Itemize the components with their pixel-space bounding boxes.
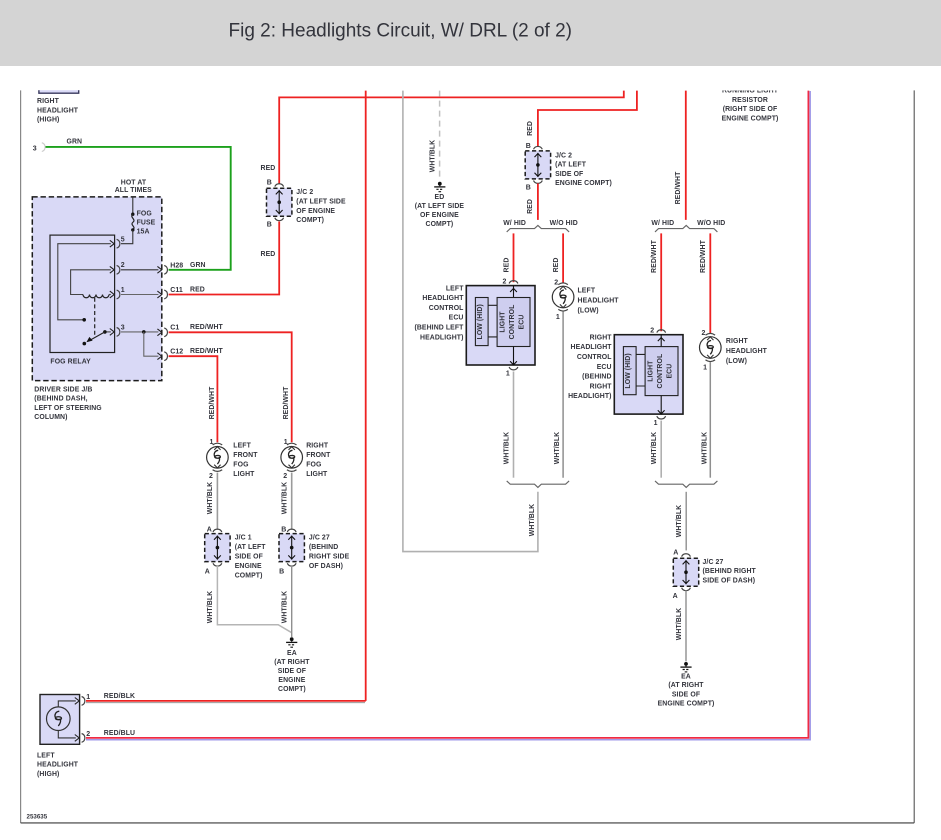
wire pin3 to C1 with junction: [121, 330, 158, 356]
svg-text:SIDE OF: SIDE OF: [235, 554, 263, 561]
svg-text:SIDE OF: SIDE OF: [278, 668, 306, 675]
svg-text:CONTROL: CONTROL: [509, 305, 516, 340]
svg-text:3: 3: [33, 145, 37, 152]
svg-text:RIGHT: RIGHT: [590, 383, 613, 390]
right headlight (high) cut-off box: [36, 84, 82, 124]
wire RED/BLU pin2 right and up (running light resistor feed): [86, 91, 810, 740]
label driver side J/B: [34, 387, 101, 422]
svg-text:FRONT: FRONT: [306, 452, 331, 459]
svg-text:RED/WHT: RED/WHT: [651, 239, 658, 273]
svg-text:RIGHT: RIGHT: [306, 443, 329, 450]
svg-text:RED/WHT: RED/WHT: [675, 171, 682, 205]
ground ED: [415, 182, 465, 228]
svg-text:LEFT: LEFT: [578, 287, 596, 294]
svg-text:W/O HID: W/O HID: [697, 220, 725, 227]
wire RED/WHT to right headlight low: [700, 233, 710, 333]
svg-text:RED/BLU: RED/BLU: [104, 730, 135, 737]
svg-text:B: B: [267, 222, 272, 229]
svg-text:WHT/BLK: WHT/BLK: [504, 432, 511, 464]
wire WHT/BLK J/C27 to ground EA: [282, 566, 292, 637]
svg-text:1: 1: [556, 314, 560, 321]
svg-text:FOG RELAY: FOG RELAY: [50, 359, 91, 366]
svg-text:2: 2: [283, 473, 287, 480]
svg-text:COMPT): COMPT): [296, 217, 324, 224]
relay pin 3: [107, 324, 125, 336]
svg-text:HEADLIGHT: HEADLIGHT: [37, 107, 79, 114]
svg-text:B: B: [267, 179, 272, 186]
ground EA (fog lights): [274, 637, 310, 693]
junction connector J/C 27 (engine): [673, 554, 756, 591]
svg-text:2: 2: [209, 473, 213, 480]
right headlight control ECU U2: [568, 328, 683, 427]
svg-text:ENGINE: ENGINE: [235, 563, 262, 570]
svg-text:FOG: FOG: [233, 461, 248, 468]
svg-text:EA: EA: [681, 673, 691, 680]
wire WHT/BLK right ECU pin1 down: [651, 421, 661, 478]
svg-text:FOG: FOG: [306, 461, 321, 468]
svg-text:WHT/BLK: WHT/BLK: [207, 482, 214, 514]
svg-text:COLUMN): COLUMN): [34, 414, 67, 421]
svg-text:COMPT): COMPT): [235, 572, 263, 579]
junction connector J/C 1: [205, 529, 267, 579]
svg-text:Fig 2: Headlights Circuit, W/: Fig 2: Headlights Circuit, W/ DRL (2 of …: [229, 21, 573, 42]
svg-text:A: A: [207, 526, 212, 533]
relay switch arm: [83, 330, 107, 345]
svg-text:HEADLIGHT: HEADLIGHT: [578, 297, 620, 304]
svg-text:W/ HID: W/ HID: [651, 220, 674, 227]
driver side J/B dashed box: [32, 197, 162, 381]
svg-text:OF DASH): OF DASH): [309, 563, 343, 570]
svg-text:COMPT): COMPT): [278, 686, 306, 693]
svg-text:RED: RED: [503, 258, 510, 273]
svg-text:WHT/BLK: WHT/BLK: [676, 608, 683, 640]
wire RED/WHT C1 to right fog light: [169, 332, 292, 442]
right front fog light: [281, 439, 331, 480]
svg-text:A: A: [205, 568, 210, 575]
svg-text:CONTROL: CONTROL: [429, 305, 464, 312]
svg-text:RED/BLK: RED/BLK: [104, 693, 135, 700]
svg-text:J/C 27: J/C 27: [309, 535, 330, 542]
svg-text:(HIGH): (HIGH): [37, 771, 59, 778]
svg-text:LOW (HID): LOW (HID): [477, 304, 484, 339]
wire WHT/BLK dashed to ground ED: [429, 91, 439, 181]
connector C1: [157, 324, 223, 336]
svg-text:LEFT: LEFT: [37, 752, 55, 759]
header band: [0, 0, 941, 66]
svg-text:(AT LEFT: (AT LEFT: [235, 544, 267, 551]
relay switch contact node: [82, 318, 86, 322]
svg-text:FUSE: FUSE: [137, 220, 156, 227]
wire WHT/BLK left ECU pin1 down: [504, 372, 514, 478]
svg-text:ECU: ECU: [597, 364, 612, 371]
svg-text:RED/WHT: RED/WHT: [209, 386, 216, 420]
svg-text:COMPT): COMPT): [426, 221, 454, 228]
svg-text:W/ HID: W/ HID: [503, 220, 526, 227]
pin 2 of left headlight high: [75, 731, 90, 742]
svg-text:2: 2: [650, 328, 654, 335]
svg-text:WHT/BLK: WHT/BLK: [701, 432, 708, 464]
svg-text:B: B: [281, 526, 286, 533]
wire RED/WHT main feed right: [675, 91, 686, 220]
svg-text:HEADLIGHT: HEADLIGHT: [37, 762, 79, 769]
svg-text:WHT/BLK: WHT/BLK: [554, 432, 561, 464]
junction connector J/C 2 (mid): [525, 146, 612, 187]
svg-text:WHT/BLK: WHT/BLK: [429, 140, 436, 172]
junction connector J/C 27 (dash): [279, 529, 350, 570]
left headlight control ECU U1: [414, 278, 535, 377]
svg-text:HEADLIGHT: HEADLIGHT: [571, 344, 613, 351]
svg-text:B: B: [526, 143, 531, 150]
svg-text:C1: C1: [170, 325, 179, 332]
fog relay inner box: [50, 235, 115, 366]
svg-text:RED: RED: [190, 287, 205, 294]
svg-text:(RIGHT SIDE OF: (RIGHT SIDE OF: [723, 106, 778, 113]
svg-text:RED: RED: [261, 165, 276, 172]
ground EA (right headlights): [658, 662, 715, 707]
wire RED feed to J/C2-mid: [527, 91, 637, 147]
svg-text:ENGINE COMPT): ENGINE COMPT): [658, 700, 715, 707]
split brace W/HID W/O HID (left): [503, 220, 578, 232]
svg-text:OF ENGINE: OF ENGINE: [296, 208, 335, 215]
svg-text:H28: H28: [170, 262, 183, 269]
svg-text:FOG: FOG: [137, 211, 152, 218]
connector C12: [157, 348, 223, 360]
pin 1 of left headlight high: [75, 694, 90, 705]
svg-text:HEADLIGHT: HEADLIGHT: [726, 348, 768, 355]
left front fog light L1: [207, 439, 259, 480]
svg-text:1: 1: [121, 287, 125, 294]
svg-text:J/C 2: J/C 2: [555, 152, 572, 159]
svg-text:(HIGH): (HIGH): [37, 117, 59, 124]
svg-text:C11: C11: [170, 287, 183, 294]
wire RED/WHT to right ECU pin2: [651, 233, 661, 331]
svg-text:253635: 253635: [27, 814, 48, 821]
relay pin 2: [110, 262, 125, 274]
connector C11: [157, 287, 204, 299]
relay coil between pins 2 and 1: [71, 270, 111, 298]
merge brace (left pair): [507, 481, 569, 488]
svg-text:(AT RIGHT: (AT RIGHT: [274, 659, 310, 666]
svg-text:(AT LEFT SIDE: (AT LEFT SIDE: [296, 199, 346, 206]
svg-text:ENGINE: ENGINE: [278, 677, 305, 684]
svg-text:LIGHT: LIGHT: [648, 360, 655, 382]
svg-text:1: 1: [703, 364, 707, 371]
svg-text:SIDE OF DASH): SIDE OF DASH): [703, 578, 756, 585]
svg-text:DRIVER SIDE J/B: DRIVER SIDE J/B: [34, 387, 92, 394]
svg-text:ECU: ECU: [519, 315, 526, 330]
wire WHT/BLK return riser to top (left headlights): [403, 91, 538, 552]
wire GRN from pin3 to H28: [42, 138, 231, 269]
svg-text:RED/WHT: RED/WHT: [283, 386, 290, 420]
svg-text:HEADLIGHT): HEADLIGHT): [420, 334, 464, 341]
svg-text:3: 3: [121, 324, 125, 331]
svg-text:2: 2: [121, 262, 125, 269]
svg-text:1: 1: [210, 439, 214, 446]
merge brace (right pair): [655, 481, 717, 488]
svg-text:2: 2: [86, 731, 90, 738]
svg-text:LEFT: LEFT: [233, 443, 251, 450]
svg-text:RESISTOR: RESISTOR: [732, 97, 768, 104]
svg-text:RED: RED: [261, 251, 276, 258]
right headlight (low) bulb: [700, 330, 768, 372]
svg-text:GRN: GRN: [190, 262, 206, 269]
svg-text:J/C 1: J/C 1: [235, 535, 252, 542]
svg-text:WHT/BLK: WHT/BLK: [282, 591, 289, 623]
svg-text:A: A: [673, 593, 678, 600]
connector H28: [157, 262, 205, 274]
svg-text:RIGHT: RIGHT: [37, 98, 60, 105]
svg-text:LIGHT: LIGHT: [500, 311, 507, 333]
svg-text:(BEHIND DASH,: (BEHIND DASH,: [34, 396, 87, 403]
svg-text:SIDE OF: SIDE OF: [555, 171, 583, 178]
svg-text:RED: RED: [527, 199, 534, 214]
svg-text:WHT/BLK: WHT/BLK: [651, 432, 658, 464]
svg-text:(AT RIGHT: (AT RIGHT: [668, 682, 704, 689]
svg-text:(BEHIND RIGHT: (BEHIND RIGHT: [703, 568, 757, 575]
svg-text:1: 1: [86, 694, 90, 701]
wire WHT/BLK J/C1 to ground jog: [207, 566, 292, 633]
wire WHT/BLK left fog to J/C1: [207, 473, 217, 530]
svg-text:HEADLIGHT): HEADLIGHT): [568, 393, 612, 400]
svg-text:C12: C12: [170, 349, 183, 356]
svg-text:LEFT: LEFT: [446, 285, 464, 292]
svg-text:1: 1: [654, 420, 658, 427]
svg-text:(BEHIND: (BEHIND: [582, 374, 611, 381]
svg-text:RED: RED: [527, 121, 534, 136]
svg-text:RED/WHT: RED/WHT: [700, 239, 707, 273]
svg-text:(AT LEFT: (AT LEFT: [555, 162, 587, 169]
split brace W/HID W/O HID (right): [651, 220, 725, 232]
svg-text:W/O HID: W/O HID: [550, 220, 578, 227]
svg-text:5: 5: [121, 237, 125, 244]
wire pin1 to C11: [121, 294, 158, 296]
page frame: [20, 90, 22, 823]
wire WHT/BLK merged to J/C27: [676, 492, 686, 551]
wire WHT/BLK J/C27 to ground EA: [676, 590, 686, 661]
svg-text:2: 2: [503, 278, 507, 285]
relay actuation dashed link: [94, 298, 96, 337]
svg-text:WHT/BLK: WHT/BLK: [676, 505, 683, 537]
svg-text:1: 1: [284, 439, 288, 446]
svg-text:OF ENGINE: OF ENGINE: [420, 212, 459, 219]
svg-text:FRONT: FRONT: [233, 452, 258, 459]
svg-text:(AT LEFT SIDE: (AT LEFT SIDE: [415, 203, 465, 210]
svg-text:B: B: [279, 568, 284, 575]
svg-text:ENGINE COMPT): ENGINE COMPT): [722, 116, 779, 123]
svg-text:(LOW): (LOW): [726, 358, 747, 365]
svg-text:HOT AT: HOT AT: [121, 179, 147, 186]
svg-text:J/C 2: J/C 2: [296, 189, 313, 196]
svg-text:15A: 15A: [137, 229, 150, 236]
junction connector J/C 2 (left): [267, 184, 347, 224]
svg-text:GRN: GRN: [67, 138, 83, 145]
relay pin 5: [58, 237, 125, 320]
svg-text:(BEHIND LEFT: (BEHIND LEFT: [414, 325, 464, 332]
svg-text:LEFT OF STEERING: LEFT OF STEERING: [34, 405, 101, 412]
svg-text:ED: ED: [435, 194, 445, 201]
wire RED/BLK pin1 to riser: [86, 693, 366, 703]
fog fuse 15A: [121, 197, 156, 244]
wire RED J/C2-left up to top feed: [261, 91, 624, 258]
svg-text:ECU: ECU: [449, 315, 464, 322]
svg-text:LIGHT: LIGHT: [306, 471, 328, 478]
svg-text:HEADLIGHT: HEADLIGHT: [422, 295, 464, 302]
svg-text:RIGHT: RIGHT: [590, 334, 613, 341]
svg-text:RED/WHT: RED/WHT: [190, 348, 224, 355]
wire RED/WHT C12 to left fog light: [169, 356, 218, 442]
svg-text:LIGHT: LIGHT: [233, 471, 255, 478]
svg-text:1: 1: [506, 371, 510, 378]
svg-text:(BEHIND: (BEHIND: [309, 544, 338, 551]
svg-text:CONTROL: CONTROL: [577, 354, 612, 361]
svg-text:WHT/BLK: WHT/BLK: [207, 591, 214, 623]
svg-text:RIGHT SIDE: RIGHT SIDE: [309, 554, 350, 561]
svg-text:WHT/BLK: WHT/BLK: [529, 504, 536, 536]
svg-text:RED: RED: [553, 258, 560, 273]
wire WHT/BLK right fog to J/C27: [282, 473, 292, 530]
wire pin2 to H28: [121, 269, 158, 271]
svg-text:RIGHT: RIGHT: [726, 338, 749, 345]
left headlight (high) box: [37, 695, 80, 778]
svg-text:A: A: [673, 549, 678, 556]
svg-text:RED/WHT: RED/WHT: [190, 324, 224, 331]
svg-text:B: B: [526, 184, 531, 191]
svg-text:LOW (HID): LOW (HID): [625, 353, 632, 388]
svg-text:ENGINE COMPT): ENGINE COMPT): [555, 180, 612, 187]
svg-text:J/C 27: J/C 27: [703, 559, 724, 566]
svg-text:WHT/BLK: WHT/BLK: [282, 482, 289, 514]
left headlight (low) bulb: [552, 279, 619, 321]
wire RED to left ECU pin 2: [503, 233, 513, 282]
wire WHT/BLK left headlight low pin1 down: [554, 312, 563, 478]
svg-text:SIDE OF: SIDE OF: [672, 692, 700, 699]
svg-text:2: 2: [702, 330, 706, 337]
svg-text:EA: EA: [287, 650, 297, 657]
svg-text:CONTROL: CONTROL: [657, 354, 664, 389]
wire RED J/C2-mid down to split: [527, 183, 538, 220]
wire WHT/BLK right headlight low pin1 down: [701, 362, 710, 478]
label running light resistor: [702, 83, 798, 123]
label HOT AT ALL TIMES: [115, 179, 152, 194]
svg-text:2: 2: [554, 279, 558, 286]
svg-text:ALL TIMES: ALL TIMES: [115, 187, 152, 194]
wire RED C11 to J/C 2 riser: [169, 222, 280, 295]
wire RED to left headlight low: [553, 233, 563, 283]
wire RED top feed riser to left headlight high: [365, 91, 367, 701]
relay pin 1: [110, 287, 125, 299]
svg-text:ECU: ECU: [667, 364, 674, 379]
svg-text:(LOW): (LOW): [578, 307, 599, 314]
